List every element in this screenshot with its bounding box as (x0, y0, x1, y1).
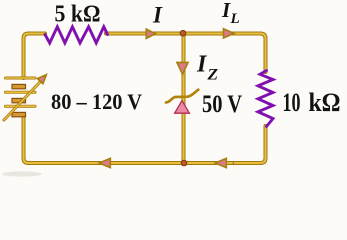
battery source plate long 2 (6, 91, 36, 94)
variable-source diagonal arrowhead (38, 75, 47, 84)
wire right segment below 10k resistor to bottom-right corner (232, 126, 266, 163)
wire bottom segment to bottom-left corner up to battery bottom (24, 116, 233, 163)
resistor RL 10 kOhm vertical zigzag (258, 71, 273, 127)
battery source plate long 1 (6, 77, 36, 80)
svg-text:I: I (152, 3, 163, 28)
svg-text:Z: Z (206, 67, 218, 84)
wire top segment from 5k resistor to top-right corner then down to 10k resistor (106, 34, 266, 73)
arrow current IL on top wire (224, 29, 234, 38)
zener diode D1 triangle (anode, pointing up) (175, 101, 190, 114)
battery source plate long 3 (6, 105, 36, 108)
svg-text:50 V: 50 V (202, 91, 242, 118)
svg-text:kΩ: kΩ (309, 88, 341, 117)
resistor R1 5 kOhm zigzag (45, 27, 108, 43)
svg-text:I: I (221, 0, 231, 22)
battery source plate short 2 (12, 98, 26, 102)
arrow current IZ down middle branch (177, 63, 188, 75)
battery source plate short 3 (12, 112, 26, 116)
node top junction (180, 30, 186, 36)
arrow bottom-left pointing left (99, 158, 110, 167)
node bottom junction (181, 160, 187, 166)
zener diode D1 cathode bar (166, 90, 198, 103)
svg-text:5 kΩ: 5 kΩ (55, 2, 101, 28)
scan smudge (decorative) (2, 171, 42, 176)
wire top-left segment from battery top to 5k resistor (24, 34, 46, 79)
arrow bottom-right pointing left (215, 158, 226, 167)
wire middle branch (zener branch) (182, 34, 186, 164)
svg-text:L: L (230, 11, 240, 27)
svg-text:10: 10 (283, 88, 301, 117)
arrow current I on top wire (146, 29, 155, 38)
battery source plate short 1 (12, 84, 26, 88)
svg-text:I: I (196, 52, 208, 78)
variable-source diagonal arrow shaft (4, 82, 40, 120)
svg-text:80 – 120 V: 80 – 120 V (51, 89, 142, 114)
